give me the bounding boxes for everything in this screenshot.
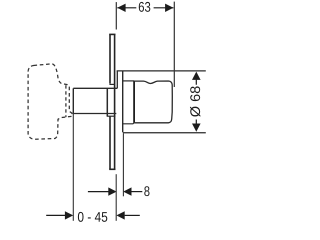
sleeve inner lip (122, 71, 124, 132)
dimension 63: dimension line segments (117, 7, 173, 9)
dimension 63: right extension line (173, 2, 175, 87)
dimension 8: right tail line (132, 191, 143, 193)
dimension Ø68: rotated label (190, 86, 200, 116)
dimension 8: label (144, 186, 149, 196)
valve body (iBox) front face, thick (133, 81, 135, 123)
sleeve top edge + diameter extension line (117, 70, 206, 72)
escutcheon plate (cross-section, tall narrow rectangle) (109, 34, 115, 169)
dimension 0-45: left tail line (46, 214, 65, 216)
extension line at stem front (left reference of 0-45) (72, 114, 74, 221)
dimension 8: right extension line (122, 133, 124, 196)
dashed handle outline (variable position) (28, 64, 72, 140)
dimension 0-45: left-pointing arrowhead (116, 211, 124, 219)
wall reference extension line (below plate) (115, 174, 117, 221)
handle stem (spindle housing) (73, 88, 117, 113)
dimension 63: label (139, 2, 151, 12)
inner shoulder edge between sleeve and body (123, 80, 135, 82)
valve body top edge with break squiggle and rounded right side (134, 81, 172, 123)
dimension Ø68: up arrowhead (192, 72, 201, 80)
dimension 0-45: right tail line (125, 214, 140, 216)
collar / sleeve nut notch at plate (107, 84, 116, 116)
dimension 0-45: right-pointing arrowhead (65, 211, 73, 219)
dashed handle knob rear face line (65, 85, 67, 117)
dimension Ø68: down arrowhead (192, 124, 201, 132)
dimension 63: left arrowhead (117, 4, 125, 12)
valve body lower-left step edge (123, 123, 134, 124)
dimension 8: right-pointing arrowhead (108, 187, 116, 195)
dimension 63: right arrowhead (165, 4, 173, 12)
sleeve bottom edge + diameter extension line (123, 132, 206, 134)
dimension Ø68: dimension line stubs (195, 80, 197, 124)
dimension 8: left-pointing arrowhead (123, 187, 131, 195)
sleeve front face above stem (116, 71, 118, 88)
dimension 63: left extension line (115, 2, 117, 29)
dimension 8: left tail line (88, 191, 109, 193)
dimension 0-45: label (78, 212, 107, 222)
